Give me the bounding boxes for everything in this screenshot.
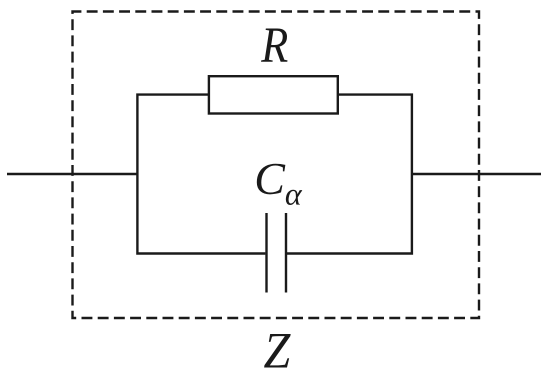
dashed box impedance Z boundary (73, 12, 480, 319)
svg-text:Z: Z (264, 323, 291, 376)
capacitor C_alpha right plate (285, 213, 287, 293)
svg-text:Cα: Cα (254, 153, 303, 211)
wire left lead (7, 173, 138, 175)
capacitor C_alpha left plate (265, 213, 267, 293)
wire right branch (node B to top and bottom) (286, 95, 412, 254)
wire left branch (node A to top and bottom) (137, 95, 265, 254)
resistor R (209, 76, 338, 113)
wire right lead (411, 173, 541, 175)
svg-text:R: R (260, 18, 288, 74)
